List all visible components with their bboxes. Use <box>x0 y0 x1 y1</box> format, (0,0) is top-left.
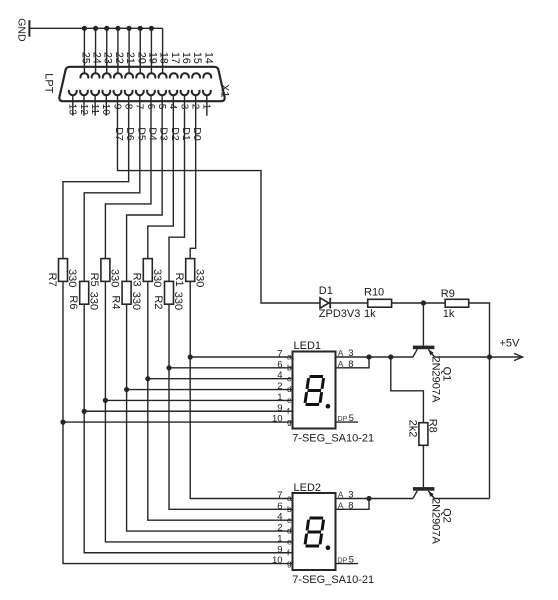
svg-text:18: 18 <box>158 52 170 64</box>
wire net D6 (pin 8 to R7) <box>63 95 129 258</box>
svg-text:17: 17 <box>169 52 181 64</box>
svg-text:DP: DP <box>337 414 347 423</box>
svg-text:+5V: +5V <box>500 338 521 350</box>
junction segment b node <box>166 365 171 370</box>
junction segment g node <box>60 420 65 425</box>
svg-text:7-SEG_SA10-21: 7-SEG_SA10-21 <box>292 433 374 445</box>
svg-text:4: 4 <box>277 370 282 381</box>
svg-text:R1: R1 <box>173 273 185 287</box>
svg-text:15: 15 <box>191 52 203 64</box>
svg-text:e: e <box>287 537 292 547</box>
wire segment c to LED2 pin <box>148 379 293 521</box>
svg-text:A: A <box>338 501 344 511</box>
junction Q1 collector / R8 tap <box>388 354 393 359</box>
svg-text:R2: R2 <box>152 295 164 309</box>
svg-text:8: 8 <box>348 359 353 370</box>
svg-text:LED1: LED1 <box>294 340 322 352</box>
wire R5 to segment e node <box>104 281 106 400</box>
wire segment c to LED1 pin <box>148 378 293 380</box>
junction segment c node <box>145 376 150 381</box>
7-segment display LED2 (7-SEG_SA10-21) <box>293 493 336 570</box>
svg-text:R8: R8 <box>427 419 439 433</box>
svg-text:g: g <box>287 417 292 427</box>
svg-text:330: 330 <box>172 292 184 310</box>
svg-text:12: 12 <box>78 104 89 116</box>
svg-text:2: 2 <box>277 523 282 534</box>
wire net D7 (pin 9 to diode D1) <box>117 95 320 303</box>
wire net D1 (pin 3 to R2) <box>169 95 185 281</box>
wire segment d to LED1 pin <box>127 389 293 391</box>
svg-text:D7: D7 <box>113 127 125 141</box>
svg-text:14: 14 <box>202 52 214 64</box>
LED2 pin name letters a-g <box>287 493 292 568</box>
connector X1 (DB25 LPT) outline <box>59 67 224 101</box>
svg-text:b: b <box>287 362 292 372</box>
wire Q1 emitter to +5V rail <box>434 356 489 358</box>
svg-text:1k: 1k <box>364 308 376 320</box>
svg-text:330: 330 <box>130 292 142 310</box>
junction segment d node <box>124 387 129 392</box>
svg-text:g: g <box>287 558 292 568</box>
svg-text:7: 7 <box>277 490 282 501</box>
svg-text:X1: X1 <box>219 84 231 97</box>
svg-text:7: 7 <box>277 349 282 360</box>
wire R4 to segment d node <box>126 304 128 389</box>
svg-text:9: 9 <box>277 403 282 414</box>
svg-text:2N2907A: 2N2907A <box>430 498 442 545</box>
svg-text:6: 6 <box>277 501 282 512</box>
wire +5V rail (Q1 emitter to Q2 emitter) <box>489 357 491 499</box>
net labels D0-D7 <box>113 127 203 141</box>
transistor Q1 (2N2907A PNP) <box>413 346 435 357</box>
X1 unused pin stubs (pins 13,12,11,10,1) <box>73 95 207 116</box>
svg-text:5: 5 <box>349 413 354 424</box>
resistor R8 (2k2) <box>419 423 428 446</box>
wire segment a to LED2 pin <box>190 357 292 499</box>
svg-text:8: 8 <box>348 501 353 512</box>
wire X1 pin 18 to GND bus <box>162 28 164 73</box>
resistor R6 (330) <box>80 281 89 304</box>
svg-text:330: 330 <box>193 269 205 287</box>
resistor R7 (330) <box>59 259 68 282</box>
junction segment e node <box>103 398 108 403</box>
svg-text:R10: R10 <box>364 286 384 298</box>
LED2 DP pin 5 stub <box>336 563 359 565</box>
svg-text:10: 10 <box>272 414 283 425</box>
svg-text:9: 9 <box>277 544 282 555</box>
wire R10 to R9 / Q bases node <box>392 302 446 304</box>
svg-text:330: 330 <box>151 269 163 287</box>
LED2 anode pin labels A3, A8 <box>338 490 354 512</box>
LED2 digit 8 segments <box>305 518 324 546</box>
wire Q1 collector to LED1 anode pins <box>336 356 413 358</box>
svg-text:R4: R4 <box>109 295 121 309</box>
svg-text:10: 10 <box>272 555 283 566</box>
wire anode node to R8 <box>391 357 424 423</box>
svg-text:DP: DP <box>337 556 347 565</box>
svg-text:R3: R3 <box>131 273 143 287</box>
wire net D0 (pin 2 to R1) <box>190 95 195 258</box>
wire net D5 (pin 7 to R6) <box>84 95 140 281</box>
svg-text:R9: R9 <box>441 288 455 300</box>
wire segment e to LED2 pin <box>105 400 292 542</box>
junction LED2 A8 join <box>366 496 371 501</box>
wire R2 to segment b node <box>168 304 170 368</box>
wire segment f to LED1 pin <box>84 410 292 412</box>
svg-text:22: 22 <box>113 52 125 64</box>
svg-text:20: 20 <box>135 52 147 64</box>
svg-text:2N2907A: 2N2907A <box>430 357 442 404</box>
svg-text:1k: 1k <box>443 308 455 320</box>
svg-text:7-SEG_SA10-21: 7-SEG_SA10-21 <box>292 574 374 586</box>
svg-text:9: 9 <box>111 104 122 110</box>
svg-text:LED2: LED2 <box>294 482 322 494</box>
wire GND bus <box>29 27 162 29</box>
wire segment b to LED2 pin <box>169 368 293 510</box>
svg-text:1: 1 <box>277 392 282 403</box>
wire segment g to LED2 pin <box>63 422 293 563</box>
svg-text:ZPD3V3: ZPD3V3 <box>319 308 361 320</box>
wire Q2 collector to LED2 anode pins <box>336 498 413 500</box>
svg-text:1: 1 <box>277 533 282 544</box>
svg-text:e: e <box>287 395 292 405</box>
resistor R9 (1k) <box>445 299 469 307</box>
svg-text:7: 7 <box>134 104 145 110</box>
transistor Q2 (2N2907A PNP) <box>413 487 435 498</box>
wire base node to Q1 base <box>422 303 424 346</box>
wire LED2 pin A8 riser <box>336 499 370 510</box>
svg-text:A: A <box>338 359 344 369</box>
junction segment f node <box>82 409 87 414</box>
svg-text:3: 3 <box>348 490 353 501</box>
resistor R4 (330) <box>122 281 131 304</box>
svg-text:d: d <box>287 384 292 394</box>
wire R8 to Q2 base <box>422 445 424 487</box>
wire segment g to LED1 pin <box>63 421 293 423</box>
X1 bottom row pin sockets (pins 1-13) <box>69 90 211 95</box>
svg-text:5: 5 <box>349 555 354 566</box>
wire segment e to LED1 pin <box>105 399 292 401</box>
svg-text:19: 19 <box>146 52 158 64</box>
wire D1 cathode to R10 <box>330 302 368 304</box>
ground GND symbol <box>28 20 30 37</box>
wire R9 to +5V rail <box>469 303 490 357</box>
LED2 decimal point <box>326 545 331 550</box>
svg-text:LPT: LPT <box>42 73 54 93</box>
X1 top pin numbers 25-14 <box>79 52 214 64</box>
svg-text:a: a <box>287 352 292 362</box>
svg-text:330: 330 <box>66 269 78 287</box>
X1 top row pin sockets (pins 14-25) <box>80 73 211 78</box>
svg-text:24: 24 <box>91 52 103 64</box>
svg-text:a: a <box>287 493 292 503</box>
resistor R5 (330) <box>101 259 110 282</box>
svg-text:R6: R6 <box>67 295 79 309</box>
svg-text:6: 6 <box>145 104 156 110</box>
wire R6 to segment f node <box>83 304 85 411</box>
wire net D3 (pin 5 to R4) <box>127 95 163 281</box>
LED1 decimal point <box>326 404 331 409</box>
LED1 DP pin 5 stub <box>336 421 359 423</box>
X1 bottom pin numbers 13-1 <box>67 104 212 116</box>
wire segment d to LED2 pin <box>127 390 293 532</box>
wire Q2 emitter to +5V rail <box>434 498 489 500</box>
svg-text:D1: D1 <box>319 285 333 297</box>
wire R1 to segment a node <box>189 281 191 357</box>
svg-text:A: A <box>338 348 344 358</box>
junction base node (R10/R9/Q1 base) <box>421 300 426 305</box>
resistor R10 (1k) <box>368 299 392 307</box>
svg-text:b: b <box>287 504 292 514</box>
wire net D2 (pin 4 to R3) <box>148 95 174 258</box>
resistor R3 (330) <box>143 259 152 282</box>
svg-text:25: 25 <box>79 52 91 64</box>
resistor R2 (330) <box>165 281 174 304</box>
svg-text:16: 16 <box>180 52 192 64</box>
svg-text:13: 13 <box>67 104 78 116</box>
7-segment display LED1 (7-SEG_SA10-21) <box>293 352 336 429</box>
svg-text:330: 330 <box>87 292 99 310</box>
LED1 anode pin labels A3, A8 <box>338 348 354 370</box>
wire net D4 (pin 6 to R5) <box>105 95 151 258</box>
wire segment a to LED1 pin <box>190 356 292 358</box>
LED1 left pin numbers 7,6,4,2,1,9,10 <box>272 349 283 425</box>
resistor R1 (330) <box>186 259 195 282</box>
svg-text:23: 23 <box>102 52 114 64</box>
junction +5V rail / Q1 emitter <box>487 354 492 359</box>
wire LED1 pin A8 riser <box>336 357 370 368</box>
svg-text:21: 21 <box>124 52 136 64</box>
junction LED1 A8 join <box>366 354 371 359</box>
svg-text:3: 3 <box>348 348 353 359</box>
wire R7 to segment g node <box>62 281 64 422</box>
LED1 pin name letters a-g <box>287 352 292 427</box>
svg-text:2k2: 2k2 <box>406 420 418 438</box>
svg-text:GND: GND <box>15 18 27 42</box>
svg-text:R7: R7 <box>46 273 58 287</box>
svg-text:2: 2 <box>277 381 282 392</box>
svg-text:6: 6 <box>277 359 282 370</box>
wire segment b to LED1 pin <box>169 367 293 369</box>
LED2 left pin numbers 7,6,4,2,1,9,10 <box>272 490 283 566</box>
diode D1 ZPD3V3 (zener) <box>320 298 329 308</box>
svg-text:d: d <box>287 526 292 536</box>
svg-text:R5: R5 <box>88 273 100 287</box>
svg-text:4: 4 <box>277 512 282 523</box>
LED1 digit 8 segments <box>305 377 324 405</box>
power +5V supply arrow <box>490 356 523 358</box>
svg-text:A: A <box>338 490 344 500</box>
svg-text:330: 330 <box>109 269 121 287</box>
junction dots GND bus (pins 19-25) <box>82 26 154 31</box>
wire R3 to segment c node <box>147 281 149 378</box>
junction segment a node <box>188 354 193 359</box>
wires X1 ground pins 19-25 to GND bus <box>83 28 85 73</box>
wire segment f to LED2 pin <box>84 411 292 553</box>
